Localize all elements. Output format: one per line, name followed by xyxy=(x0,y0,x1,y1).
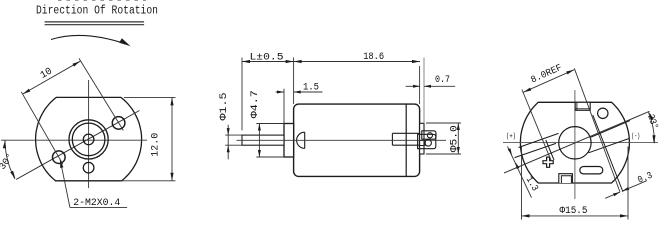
dim phi5.0 xyxy=(426,122,461,124)
svg-text:1.5: 1.5 xyxy=(303,83,319,94)
small hole below center xyxy=(83,162,94,173)
left view: motor face outline xyxy=(36,97,142,180)
vertical centerline xyxy=(88,80,90,188)
shaft phi1.5 xyxy=(242,135,284,145)
terminal lower tab xyxy=(418,134,436,148)
dim 1.3 line xyxy=(508,147,532,198)
dim 10: extension line right xyxy=(79,58,123,130)
ext line body front face up xyxy=(293,58,295,105)
bearing boss outer circle xyxy=(69,120,108,159)
main diagonal thick companion right xyxy=(591,121,630,138)
horizontal centerline right view xyxy=(503,142,658,144)
center circle xyxy=(559,127,591,159)
bearing boss inner circle xyxy=(72,123,105,156)
svg-text:Φ1.5: Φ1.5 xyxy=(219,93,230,121)
clipped text remnants top xyxy=(58,0,146,2)
strip edge upper-left xyxy=(519,133,559,147)
endbell notch bottom xyxy=(392,144,419,146)
slot oval xyxy=(580,167,603,174)
ext line shaft tip xyxy=(241,58,243,131)
svg-text:(-): (-) xyxy=(631,133,640,141)
right terminal steep line (8.0REF ext) xyxy=(574,68,620,192)
diagonal centerline through screw holes xyxy=(16,111,139,180)
terminal upper tab xyxy=(422,131,436,139)
svg-text:12.0: 12.0 xyxy=(151,133,162,157)
plus terminal mark xyxy=(543,157,553,167)
endbell notch vertical xyxy=(391,133,393,145)
dim 10: extension line left xyxy=(21,92,63,164)
dim 10: dimension line xyxy=(23,61,81,94)
dim 18.6 line xyxy=(294,61,420,63)
horizontal centerline xyxy=(1,139,147,141)
svg-text:18.6: 18.6 xyxy=(363,52,384,63)
strip edge lower-left xyxy=(515,143,557,157)
svg-text:Φ15.5: Φ15.5 xyxy=(560,205,588,217)
ext line body rear xyxy=(419,66,421,104)
dim 0.3 line xyxy=(605,192,620,198)
bottom square tab outer xyxy=(559,174,573,183)
svg-text:(+): (+) xyxy=(506,133,516,141)
dim phi15.5 line xyxy=(522,215,629,217)
svg-text:0.7: 0.7 xyxy=(435,75,450,86)
right terminal second edge xyxy=(593,115,623,192)
right view: endbell face outline xyxy=(520,102,629,183)
dim 23 deg arc xyxy=(648,112,654,143)
upper-right hole xyxy=(598,108,608,118)
dim 1.5 (boss) xyxy=(283,89,285,124)
main diagonal 23 deg xyxy=(504,111,650,173)
svg-text:Φ4.7: Φ4.7 xyxy=(250,90,261,118)
svg-text:L±0.5: L±0.5 xyxy=(250,52,284,63)
shaft boss phi4.7 xyxy=(284,124,294,158)
dim 12.0: dimension line xyxy=(171,97,173,180)
rotation direction curved arrow xyxy=(51,35,126,44)
dim 12.0: extension lines xyxy=(124,96,176,98)
vertical centerline right view xyxy=(574,90,576,199)
title double underline xyxy=(45,21,145,23)
axis centerline xyxy=(237,139,447,141)
leader 2-M2X0.4 xyxy=(60,160,70,208)
strip edge right-lower xyxy=(589,139,630,153)
svg-text:Φ5.0: Φ5.0 xyxy=(450,125,461,152)
dim 8.0REF line xyxy=(523,70,574,93)
left terminal steep line (8.0REF ext) xyxy=(522,90,551,161)
screw hole upper-right M2 xyxy=(112,117,125,130)
dim 30 deg arc xyxy=(5,140,15,179)
shaft circle xyxy=(83,134,94,145)
ext line plate rear (gray) xyxy=(423,58,425,124)
dim 0.7 xyxy=(406,85,420,87)
motor body (side) xyxy=(294,104,420,176)
dim phi15.5 ext lines xyxy=(521,147,523,220)
endbell notch top xyxy=(392,132,419,134)
can/endbell seam xyxy=(405,104,407,176)
bottom square tab inner xyxy=(561,176,571,183)
screw hole lower-left M2 xyxy=(53,151,66,164)
brush cap plate xyxy=(420,123,424,154)
left terminal second edge xyxy=(546,140,554,160)
svg-text:2-M2X0.4: 2-M2X0.4 xyxy=(73,198,120,209)
dim L+-0.5 line xyxy=(242,61,294,63)
dim phi4.7 xyxy=(256,123,284,125)
dim phi1.5 xyxy=(225,134,242,136)
top tab xyxy=(575,102,590,110)
bearing dome inside body xyxy=(297,132,305,148)
svg-text:Direction Of Rotation: Direction Of Rotation xyxy=(36,5,158,18)
